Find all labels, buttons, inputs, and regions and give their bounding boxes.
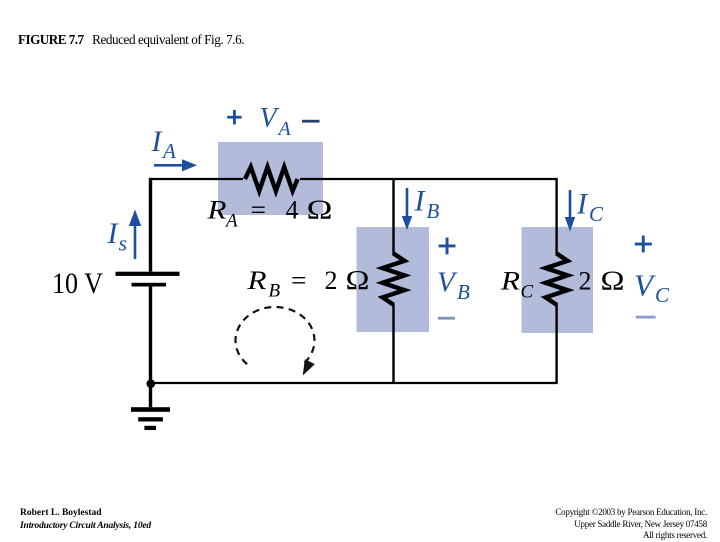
svg-text:C: C xyxy=(521,282,534,303)
svg-text:A: A xyxy=(161,139,176,163)
svg-text:I: I xyxy=(414,185,427,218)
svg-text:A: A xyxy=(277,118,292,140)
svg-text:10 V: 10 V xyxy=(52,267,103,300)
svg-text:V: V xyxy=(260,103,280,134)
svg-text:4: 4 xyxy=(286,196,299,225)
svg-text:R: R xyxy=(500,267,520,296)
svg-text:Ω: Ω xyxy=(307,195,333,225)
svg-text:B: B xyxy=(269,281,281,302)
svg-text:R: R xyxy=(206,196,226,225)
svg-text:R: R xyxy=(246,266,266,295)
svg-text:A: A xyxy=(224,211,238,232)
svg-text:I: I xyxy=(151,125,164,158)
svg-text:2: 2 xyxy=(579,267,592,296)
svg-text:2: 2 xyxy=(325,266,338,295)
svg-text:Ω: Ω xyxy=(346,265,370,295)
svg-text:B: B xyxy=(457,280,470,304)
svg-text:C: C xyxy=(589,202,604,226)
svg-text:Ω: Ω xyxy=(601,266,625,296)
svg-text:=: = xyxy=(251,196,267,225)
svg-text:s: s xyxy=(119,231,128,256)
svg-text:C: C xyxy=(655,283,670,307)
svg-text:I: I xyxy=(576,188,589,221)
svg-text:V: V xyxy=(634,268,656,303)
svg-text:=: = xyxy=(291,266,307,295)
svg-text:V: V xyxy=(437,267,458,299)
svg-text:B: B xyxy=(427,199,440,223)
